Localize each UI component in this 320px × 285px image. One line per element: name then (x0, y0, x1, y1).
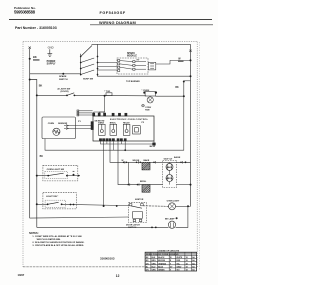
regulator top pins (129, 204, 143, 206)
latch switch dashed box (43, 193, 76, 209)
node L2 terminal X (189, 50, 191, 52)
connector P1 wire stubs (77, 110, 95, 116)
svg-text:OVEN: OVEN (48, 123, 55, 125)
terminal marks on output (70, 204, 72, 206)
svg-text:A LIGHT SW: A LIGHT SW (57, 88, 71, 91)
legend cells (146, 256, 196, 272)
oven sensor box (42, 117, 75, 139)
latch switch blade (48, 202, 59, 204)
EOC relay K4 (133, 126, 141, 134)
junction to EOC top pins (104, 95, 106, 97)
header title underline (90, 24, 213, 26)
wire EOC drop to broil row (118, 141, 163, 185)
terminals on bottom run (151, 227, 153, 229)
wire branch to second bus (30, 80, 37, 228)
junction on L1 bus (29, 58, 31, 60)
svg-text:OVEN LIGHT: OVEN LIGHT (167, 201, 180, 203)
wire to oven light switch box (37, 175, 48, 177)
oven light switch inner dashed box (45, 172, 68, 179)
wire down right side to lower run (107, 96, 184, 150)
wire from L1 bus to spark switch bank (30, 73, 81, 75)
EOC electronic oven control box U1 (93, 116, 154, 141)
junction lamp wire down branch (183, 95, 185, 97)
header rule (9, 18, 212, 20)
junction EOC drop on light net (103, 205, 105, 207)
terminal on riser (183, 81, 185, 83)
junction bus2 latch switch feed (36, 203, 38, 205)
wire oven light to bus junction (176, 205, 191, 207)
door lamp B3 (168, 218, 177, 229)
wire EOC drop to bake row (110, 141, 191, 162)
gas valve dashed box (163, 160, 177, 187)
svg-text:18: 18 (186, 257, 188, 259)
legend header band (146, 253, 197, 255)
svg-text:NOTES:: NOTES: (29, 232, 39, 235)
latch switch inner dashed box (45, 200, 65, 207)
svg-text:SWITCH: SWITCH (59, 79, 68, 81)
wire drop to EOC top pins (94, 96, 105, 112)
svg-text:18: 18 (186, 263, 188, 265)
pressure regulator dashed box (129, 203, 147, 223)
EOC relay K3 (123, 124, 130, 135)
svg-text:WIRING DIAGRAM: WIRING DIAGRAM (99, 20, 136, 25)
wire switch output to EOC drop (67, 175, 80, 177)
svg-text:BA BK: BA BK (174, 156, 181, 159)
junction light net bus (187, 205, 189, 207)
broil valve coil (166, 175, 173, 182)
spark module A1 dashed box (117, 58, 148, 74)
spark module middle pins (133, 61, 135, 71)
terminal on corner drop (153, 143, 156, 145)
wire sensor stub to lower run (45, 139, 107, 151)
svg-text:12: 12 (116, 274, 120, 278)
svg-text:BK: BK (175, 87, 179, 89)
broil row terminals (128, 184, 139, 186)
svg-text:SPARK: SPARK (127, 52, 135, 55)
svg-text:BK: BK (40, 156, 44, 158)
svg-text:TOP BURNER: TOP BURNER (126, 81, 140, 83)
sensor RTD symbol (53, 128, 60, 135)
svg-text:18: 18 (186, 260, 188, 262)
oven light B2 (169, 203, 176, 210)
svg-text:FAN: FAN (145, 108, 150, 111)
wire bank bottom rail to bus (98, 75, 191, 77)
svg-text:5995088588: 5995088588 (14, 10, 36, 15)
junction bus2 oven light switch feed (36, 175, 38, 177)
broil ignitor E2 hatched (142, 185, 150, 193)
svg-text:18: 18 (186, 267, 188, 269)
wire spark module to L2 bus (156, 60, 191, 64)
svg-text:WIR PLUG RATED MIN.: WIR PLUG RATED MIN. (37, 238, 62, 241)
regulator inner bar (131, 206, 142, 208)
spark switch bank SW1-SW4 surface burner switches (81, 44, 98, 75)
legend wire color code table (145, 252, 197, 271)
wire EOC drop to oven light net (103, 141, 105, 206)
svg-text:BLUE: BLUE (158, 267, 164, 269)
svg-text:BK W: BK W (150, 146, 156, 148)
convection fan motor symbol (142, 104, 145, 107)
svg-text:ORN: ORN (152, 263, 157, 265)
junction L2 bus (190, 59, 192, 61)
door switch blade (67, 93, 74, 96)
oven light switch dashed box (43, 165, 78, 181)
wire EOC drop pin5 (124, 141, 126, 150)
wire bake valve to bus (177, 161, 191, 163)
wire door switch run (37, 94, 67, 96)
svg-text:MODULE: MODULE (127, 56, 137, 58)
ground symbol (47, 49, 52, 56)
svg-text:W: W (122, 160, 124, 162)
wires bank to spark module pins (98, 63, 118, 71)
svg-text:RELAY: RELAY (123, 122, 130, 125)
svg-text:BRN: BRN (152, 260, 157, 262)
wire bake to broil row link (127, 162, 129, 184)
sensor wires to EOC (64, 125, 93, 130)
svg-text:BK: BK (39, 85, 43, 88)
EOC relay K1 (99, 124, 106, 135)
svg-text:WHITE: WHITE (176, 257, 183, 259)
svg-text:BAKE: BAKE (98, 122, 104, 125)
valve internal stems (169, 162, 171, 184)
svg-text:BROIL: BROIL (140, 181, 147, 183)
svg-text:Part Number - 316005103: Part Number - 316005103 (15, 26, 57, 30)
svg-text:SPARK: SPARK (59, 75, 67, 78)
svg-text:BK LAMP: BK LAMP (165, 218, 175, 221)
wire latch switch output (62, 204, 129, 205)
EOC left pin squares (91, 122, 93, 130)
svg-text:W: W (170, 257, 172, 259)
svg-text:OVEN LIGHT SW: OVEN LIGHT SW (47, 169, 65, 171)
wire switch to oven lamp (74, 94, 146, 96)
junction bus2 door switch feed (36, 94, 38, 96)
svg-text:2. W/ A SWITCH SHOWN IN POSITI: 2. W/ A SWITCH SHOWN IN POSITION OF RANG… (32, 241, 84, 244)
svg-text:316005103: 316005103 (100, 256, 115, 260)
svg-text:(DOOR): (DOOR) (61, 91, 69, 93)
svg-text:ORANGE: ORANGE (158, 262, 167, 265)
spark module output connector (148, 62, 155, 70)
bake row terminals (123, 162, 182, 164)
junction splice on wire (62, 73, 64, 75)
wire top from bank to L2 bus (92, 43, 191, 45)
wire to latch switch box (37, 203, 48, 205)
svg-text:GND: GND (48, 45, 54, 49)
svg-text:BROIL: BROIL (110, 123, 117, 125)
svg-text:BAKE: BAKE (144, 159, 150, 162)
regulator element (133, 212, 143, 222)
svg-text:1. CONN* WIRE NTS. AL WIRING A: 1. CONN* WIRE NTS. AL WIRING AT *E 90 C … (32, 235, 82, 238)
svg-text:WH BK: WH BK (133, 160, 140, 162)
wire bus2 bottom run (37, 226, 169, 228)
wire L1 bus bottom run (30, 217, 129, 218)
svg-text:3. CIRCUITS ARE IN A OFF UPON: 3. CIRCUITS ARE IN A OFF UPON GE ALL WIR… (32, 244, 84, 247)
svg-text:* OVEN: * OVEN (142, 90, 150, 92)
wire broil valve to bus (177, 184, 191, 186)
svg-text:LIGHT SW *: LIGHT SW * (46, 196, 58, 198)
EOC relay K2 (110, 124, 117, 135)
svg-text:IGNITOR: IGNITOR (135, 199, 144, 201)
svg-text:FGF540GSF: FGF540GSF (100, 11, 126, 15)
wire L2 bus right vertical (190, 44, 192, 206)
svg-text:SUPPLY: SUPPLY (47, 64, 56, 66)
wire lamp to bus riser (155, 82, 183, 97)
svg-text:BROIL: BROIL (166, 178, 173, 180)
oven lamp B1 assembly (144, 92, 157, 103)
svg-text:BK: BK (33, 55, 37, 59)
svg-text:BROWN: BROWN (158, 260, 166, 262)
spark module left pins (118, 60, 120, 72)
EOC top pin squares (93, 112, 127, 116)
svg-text:SURF SW: SURF SW (83, 78, 94, 80)
svg-text:18: 18 (186, 270, 188, 272)
junction L1 bus to second bus (29, 79, 31, 81)
wire L1 bus left vertical (29, 49, 31, 218)
wire regulator to oven light (143, 205, 168, 208)
spark module internal links (120, 61, 146, 70)
svg-text:GRAY: GRAY (176, 266, 182, 269)
svg-text:BLACK: BLACK (158, 256, 165, 259)
svg-text:10/97: 10/97 (18, 273, 25, 277)
terminal on light net (116, 205, 118, 207)
junction broil row bus (190, 184, 192, 186)
wire EOC box corner drop (153, 141, 155, 144)
svg-text:GREEN: GREEN (158, 270, 165, 272)
node L1 terminal (29, 47, 31, 49)
wire EOC drop to lower terminal (101, 141, 155, 144)
svg-text:GAS VLV: GAS VLV (164, 157, 173, 160)
bake valve coil (166, 163, 173, 170)
svg-text:GRN: GRN (152, 270, 157, 272)
svg-text:BAKE: BAKE (167, 166, 173, 169)
oven light switch blade (48, 173, 63, 175)
junction bake row bus (185, 161, 187, 163)
bake ignitor E1 hatched (142, 162, 150, 170)
EOC bottom pin squares (99, 139, 126, 141)
wire riser to L2 bus (184, 80, 191, 82)
svg-text:WIRE COLOR CODE LEGEND: WIRE COLOR CODE LEGEND (146, 254, 179, 256)
component TOD thermal switch on wire (106, 93, 112, 96)
wire door lamp up to light net (176, 206, 188, 227)
svg-text:* TOD: * TOD (104, 91, 110, 93)
